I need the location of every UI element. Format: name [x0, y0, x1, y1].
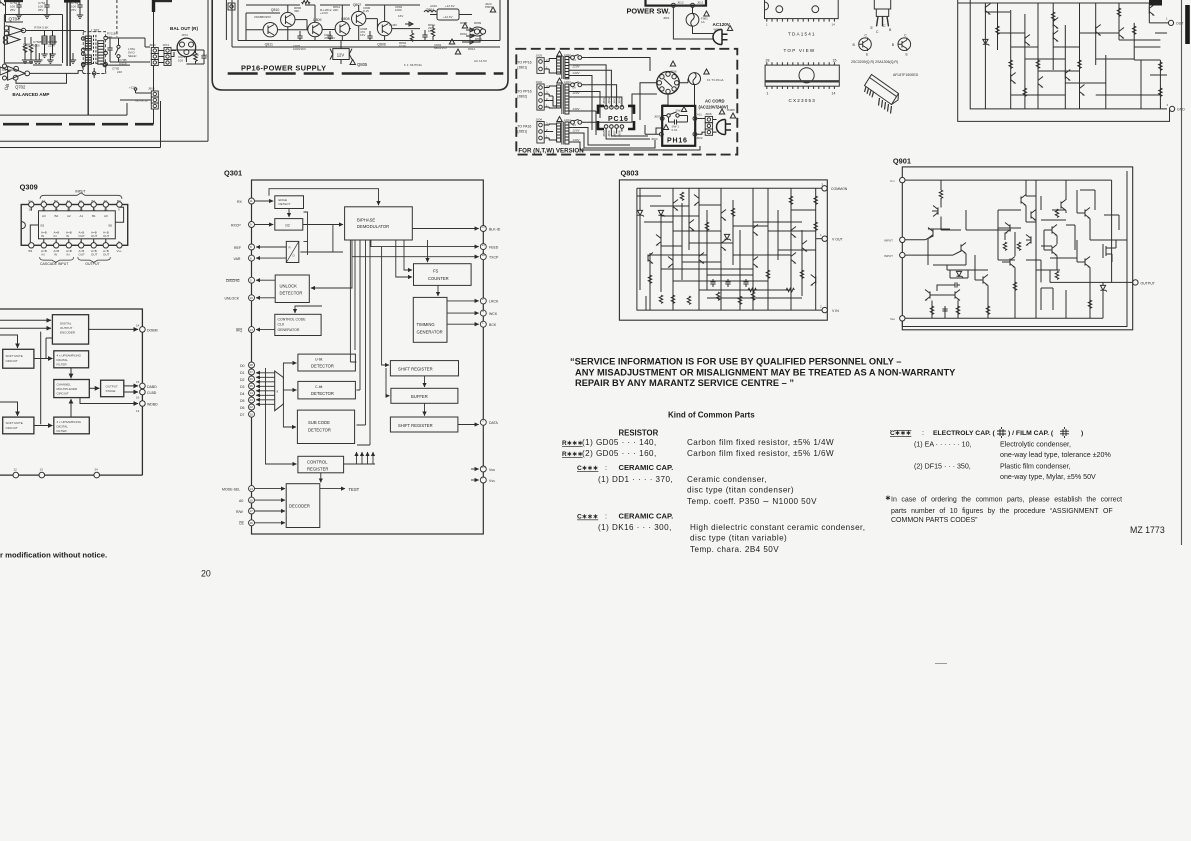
svg-text:0V: 0V — [573, 58, 577, 62]
svg-text:IN: IN — [67, 252, 70, 256]
wire filter2 up to mux — [70, 399, 72, 417]
mux trapezoid — [275, 371, 284, 411]
svg-text:OUTPUT: OUTPUT — [106, 385, 119, 389]
connector J904 column — [151, 48, 158, 66]
svg-text:16: 16 — [29, 207, 33, 211]
page edge vertical line — [1181, 0, 1183, 545]
pin GND — [1170, 106, 1175, 111]
svg-text:B2: B2 — [55, 214, 59, 218]
svg-text:20: 20 — [201, 569, 211, 579]
svg-text:INPUT: INPUT — [884, 254, 893, 258]
svg-text:DATA: DATA — [489, 421, 498, 425]
svg-text:CERAMIC CAP.: CERAMIC CAP. — [619, 512, 674, 521]
svg-text:Q810: Q810 — [271, 8, 280, 12]
PP16 outer rounded border — [212, 0, 508, 90]
bottom rail Vee — [905, 230, 1103, 318]
wire into control code clk — [295, 306, 322, 313]
PC16 pin circles top — [604, 106, 608, 110]
svg-text:RXCP: RXCP — [231, 223, 241, 227]
transistor mid lower — [1010, 257, 1015, 268]
svg-text:1/2: 1/2 — [285, 224, 290, 228]
wire encoder to DOBM — [89, 328, 138, 330]
svg-text:Q809: Q809 — [313, 18, 322, 22]
wire demod to shift register — [382, 247, 389, 365]
Q901 outer box — [902, 167, 1132, 330]
wire CE to decoder — [255, 522, 286, 524]
svg-text:AFL87F1500ED: AFL87F1500ED — [893, 73, 919, 77]
svg-text:22: 22 — [250, 405, 254, 409]
top bus wire — [0, 309, 142, 475]
svg-text:C971: C971 — [202, 54, 210, 58]
transformer L004 core — [562, 122, 564, 145]
svg-text:Q901: Q901 — [893, 157, 911, 166]
svg-text:TO PA16: TO PA16 — [517, 125, 531, 129]
transistor mirror bottom-left 1 — [925, 290, 930, 301]
svg-text:SOFT MUTE: SOFT MUTE — [6, 354, 23, 358]
svg-text:11: 11 — [250, 199, 253, 203]
right pin circles — [480, 226, 486, 232]
svg-text:240V: 240V — [572, 71, 581, 75]
svg-text:C∗∗∗: C∗∗∗ — [890, 430, 912, 437]
labels top-left — [2, 1, 209, 103]
wire filter1 to channel mux — [70, 368, 72, 378]
wire top rails — [4, 0, 62, 63]
svg-text:REF: REF — [234, 246, 241, 250]
box C-bit DETECTOR — [298, 381, 356, 399]
svg-text:56K: 56K — [23, 46, 28, 50]
PP16 inner border left — [225, 0, 227, 40]
svg-text:J906: J906 — [148, 87, 155, 91]
wire biphase to BLK-ID — [412, 228, 478, 230]
svg-text:VDD: VDD — [489, 468, 495, 472]
diode pair box — [956, 271, 963, 277]
svg-text:J803: J803 — [612, 97, 616, 104]
wire RXCP to divider — [255, 224, 274, 226]
transistor Q809 — [308, 22, 322, 36]
wires mid connections — [961, 196, 1066, 270]
transistor input pair left — [928, 228, 933, 239]
svg-text:B0: B0 — [117, 199, 121, 203]
box DIGITAL OUTPUT ENCODER — [52, 315, 88, 344]
box SHIFT REGISTER 2 — [390, 417, 458, 432]
svg-text:A0: A0 — [104, 214, 108, 218]
svg-text:In case of ordering the common: In case of ordering the common parts, pl… — [891, 497, 1122, 504]
transistor Q808 — [335, 21, 349, 35]
transformer L003 primary — [557, 85, 561, 108]
svg-text:CX23053: CX23053 — [789, 98, 817, 103]
resistor output — [1088, 300, 1091, 308]
wire timing to BCK — [447, 323, 479, 325]
svg-text:TO PP16: TO PP16 — [517, 90, 531, 94]
svg-text:12: 12 — [482, 225, 486, 229]
capacitor C753B block — [50, 36, 55, 44]
wire top loop into biphase — [269, 189, 379, 206]
internal vertical rails — [650, 188, 816, 310]
svg-text:PP16-POWER SUPPLY: PP16-POWER SUPPLY — [241, 64, 326, 73]
svg-text:540: 540 — [107, 35, 112, 39]
wire fuse to plug — [693, 26, 714, 33]
svg-text:DECODER: DECODER — [289, 504, 310, 509]
transistor pinout 2SC3209 — [859, 38, 872, 51]
transformer L003 secondary — [565, 84, 569, 114]
wire mute — [120, 66, 154, 124]
wire mux to C-bit detector — [283, 389, 296, 391]
warning triangle L003 — [557, 78, 562, 83]
CASCADE INPUT brace — [40, 257, 74, 262]
PC16 bracket frame — [598, 106, 634, 129]
wire FS counter to timing generator — [437, 285, 439, 296]
AC plug 120V — [713, 29, 728, 44]
IC CX23053 package — [765, 65, 839, 86]
box CONTROL REGISTER — [298, 456, 344, 473]
warning triangles — [462, 23, 467, 28]
svg-text:VSS: VSS — [489, 479, 495, 483]
svg-text:220V: 220V — [572, 64, 581, 68]
svg-text:BALANCED AMP: BALANCED AMP — [12, 92, 49, 97]
box CHANNEL MULTIPLEXER CIRCUIT — [54, 380, 90, 398]
svg-text:+12.6V: +12.6V — [445, 4, 455, 8]
wire to FEED — [371, 240, 479, 247]
svg-text:25V: 25V — [10, 8, 15, 12]
inner logic rect — [39, 211, 116, 239]
transformer L702 core — [94, 35, 96, 65]
svg-text:DETECT: DETECT — [279, 202, 291, 206]
svg-text:215K: 215K — [48, 43, 55, 47]
svg-text:RESISTOR: RESISTOR — [619, 429, 659, 438]
pin Vee — [900, 316, 905, 321]
svg-text:12V: 12V — [337, 53, 345, 58]
svg-text:DEMODULATOR: DEMODULATOR — [357, 224, 389, 229]
svg-text:+12V: +12V — [129, 86, 136, 90]
box SOFT MUTE CIRCUIT 2 — [3, 417, 34, 434]
svg-text:SHIFT REGISTER: SHIFT REGISTER — [398, 423, 433, 428]
svg-text:C∗∗∗: C∗∗∗ — [577, 465, 599, 472]
svg-text:15: 15 — [833, 59, 837, 63]
box divider 1/2 — [275, 219, 303, 231]
top rail Vcc — [905, 180, 1112, 240]
svg-text:14: 14 — [136, 324, 140, 328]
transistor current source top-left — [933, 206, 938, 217]
svg-text:DABD: DABD — [147, 385, 157, 389]
wire biphase to R/D — [300, 225, 343, 253]
svg-text:J002: J002 — [536, 80, 543, 84]
svg-text:REGISTER: REGISTER — [307, 467, 328, 472]
warning triangle Q805 — [350, 60, 355, 65]
svg-text:A2: A2 — [67, 199, 71, 203]
svg-text:TDA1541: TDA1541 — [788, 32, 816, 37]
svg-text:LRCK: LRCK — [489, 300, 499, 304]
svg-text:one-way lead type, tolerance: one-way lead type, tolerance ±20% — [1000, 451, 1111, 459]
wire D pins to mux — [256, 372, 275, 374]
pin circles bottom — [29, 243, 34, 248]
svg-text:0.15: 0.15 — [363, 9, 369, 13]
diode D804 — [405, 22, 420, 29]
long vertical wires — [67, 0, 70, 66]
svg-text:U-bit: U-bit — [315, 358, 322, 362]
driver transistor right — [1061, 200, 1066, 211]
dashed border box — [516, 49, 737, 155]
svg-text:BLK-ID: BLK-ID — [489, 227, 501, 231]
svg-text:STAGE: STAGE — [106, 389, 116, 393]
svg-text:R∗∗∗: R∗∗∗ — [562, 440, 583, 447]
svg-text:CN 10009: CN 10009 — [2, 68, 16, 72]
wire mux to output stage — [89, 387, 99, 389]
svg-text:Q704: Q704 — [9, 17, 21, 22]
svg-text:1000: 1000 — [395, 8, 402, 12]
svg-text:MODE-SEL: MODE-SEL — [222, 487, 240, 491]
svg-text:Q702: Q702 — [15, 85, 26, 90]
long vertical wires demod to detectors — [350, 240, 370, 445]
input pair wires — [905, 236, 961, 255]
connector J004 — [537, 122, 549, 144]
svg-text:P803: P803 — [485, 5, 492, 9]
voltage selector J006 — [657, 72, 680, 95]
svg-text:CASCADE INPUT: CASCADE INPUT — [40, 262, 69, 266]
diode D810 — [466, 28, 474, 32]
capacitor C754 — [16, 0, 22, 18]
svg-text:R∗∗∗: R∗∗∗ — [562, 451, 583, 458]
svg-text:“SERVICE INFORMATION IS FOR US: “SERVICE INFORMATION IS FOR USE BY QUALI… — [570, 357, 901, 367]
svg-text:D3: D3 — [240, 385, 245, 389]
svg-text:(1) GD05 · · · 140,: (1) GD05 · · · 140, — [582, 438, 657, 447]
pin CLBD — [140, 389, 146, 395]
Q803 outer box — [619, 180, 827, 320]
svg-text:D7: D7 — [240, 413, 245, 417]
svg-text:UNLOCK: UNLOCK — [225, 297, 240, 301]
svg-text:IN: IN — [54, 234, 57, 238]
switch S-5V — [117, 45, 120, 48]
svg-text:A3: A3 — [42, 214, 46, 218]
wire Vss arrow — [471, 479, 479, 481]
svg-text::: : — [922, 429, 924, 437]
PH16 partial box top — [646, 0, 707, 6]
bus line 1 — [0, 103, 127, 115]
wire MODE-SEL to decoder — [255, 488, 286, 490]
svg-text:220V: 220V — [572, 91, 581, 95]
wire into unlock detector — [311, 257, 352, 288]
wire to buffer — [386, 368, 390, 396]
svg-text:FOR (N,T,W) VERSION: FOR (N,T,W) VERSION — [518, 148, 584, 155]
capacitor C713 — [107, 45, 112, 53]
svg-text:21: 21 — [482, 465, 486, 469]
svg-text:DETECTOR: DETECTOR — [311, 391, 334, 396]
pin circles PH16 — [660, 117, 664, 121]
Q301 outer box — [252, 180, 484, 534]
transistor Q811 — [263, 23, 277, 37]
svg-text:INPUT: INPUT — [884, 239, 893, 243]
connector J005 column — [705, 116, 712, 135]
svg-text:B1: B1 — [92, 214, 96, 218]
svg-text:(J802): (J802) — [517, 95, 527, 99]
connector J023 plug circles — [474, 29, 479, 34]
feedback wire Q702 — [16, 73, 67, 83]
box EDGE DETECT — [275, 196, 304, 209]
svg-text:J003: J003 — [536, 54, 543, 58]
svg-text::: : — [605, 464, 607, 472]
transformer L003 core — [562, 84, 564, 115]
fuse F002 — [689, 73, 701, 85]
svg-text:14: 14 — [250, 487, 254, 491]
transistor input pair right — [961, 243, 966, 254]
svg-text:CERAMIC CAP.: CERAMIC CAP. — [619, 463, 674, 472]
svg-text:25V: 25V — [71, 8, 76, 12]
svg-text:A1: A1 — [79, 199, 83, 203]
transformer L702 primary windings — [85, 36, 91, 50]
fuse link L002 — [571, 56, 575, 60]
svg-text:Q806: Q806 — [377, 42, 386, 46]
box OUTPUT STAGE — [101, 380, 124, 397]
wire divider to biphase — [303, 224, 343, 226]
zener output — [1100, 285, 1107, 291]
top component row wires — [246, 5, 420, 22]
svg-text:FILTER: FILTER — [57, 429, 68, 433]
svg-text:4 x UPSAMPLING: 4 x UPSAMPLING — [57, 420, 82, 424]
wire R/D to VAR — [256, 257, 286, 259]
switch SW-1 — [667, 114, 670, 117]
svg-text:CLBD: CLBD — [147, 391, 157, 395]
svg-text:Carbon film fixed resistor, ±: Carbon film fixed resistor, ±5% 1/6W — [687, 449, 834, 458]
fuse link L003 — [571, 83, 575, 87]
svg-text:6800/35V: 6800/35V — [434, 46, 447, 50]
svg-text:1000/16V: 1000/16V — [293, 47, 306, 51]
box FS COUNTER — [414, 264, 472, 286]
svg-text:(1) DD1 · · · · 370,: (1) DD1 · · · · 370, — [598, 475, 673, 484]
svg-text:OUT: OUT — [91, 252, 98, 256]
regulator Q804 box — [437, 9, 459, 20]
svg-text:J005: J005 — [705, 112, 712, 116]
wire RX to edge detect — [255, 200, 274, 202]
svg-text:TEST: TEST — [349, 487, 360, 492]
svg-text:J972: J972 — [181, 33, 188, 37]
svg-text:(1) DK16 · · · 300,: (1) DK16 · · · 300, — [598, 523, 672, 532]
pin circles top — [29, 202, 34, 207]
svg-text:R808: R808 — [460, 21, 468, 25]
svg-text:OUTPUT: OUTPUT — [1141, 281, 1156, 285]
svg-text:2SD880/35V: 2SD880/35V — [254, 15, 271, 19]
module pins left — [865, 87, 874, 98]
svg-text:SUB CODE: SUB CODE — [308, 420, 330, 425]
svg-text:14: 14 — [832, 92, 836, 96]
svg-text:101K: 101K — [399, 44, 406, 48]
svg-text:25: 25 — [250, 384, 254, 388]
svg-text:39K: 39K — [294, 9, 299, 13]
svg-text:A1: A1 — [80, 214, 84, 218]
wire to DABD — [124, 385, 138, 387]
wire unlock det to UNLOCK — [256, 297, 275, 299]
wire SM2 to filter2 — [34, 425, 53, 427]
fuse link L004 — [571, 120, 575, 124]
capacitors Q803 — [710, 279, 715, 287]
transformer L002 primary — [557, 57, 561, 74]
wire to fuse — [677, 5, 702, 13]
svg-text:AC CORD: AC CORD — [705, 99, 725, 104]
svg-text:D1: D1 — [240, 371, 245, 375]
wire A0 to decoder — [255, 499, 286, 501]
svg-text:IN: IN — [41, 234, 44, 238]
module pins right — [879, 98, 892, 114]
svg-text:J-01: J-01 — [696, 113, 702, 117]
electrolytic capacitor C815 — [299, 31, 301, 34]
inner box bottom with grounds — [33, 64, 62, 66]
svg-text:20: 20 — [250, 412, 254, 416]
svg-text:D0: D0 — [240, 364, 245, 368]
warning triangle fuse — [704, 11, 709, 16]
svg-text:DETECTOR: DETECTOR — [311, 364, 334, 369]
svg-text:18: 18 — [482, 253, 486, 257]
diode D812 — [462, 36, 480, 44]
svg-text:R809: R809 — [474, 21, 482, 25]
svg-text:4 x UPSAMPLING: 4 x UPSAMPLING — [57, 354, 82, 358]
svg-text:16V: 16V — [428, 29, 433, 33]
svg-text:B3: B3 — [29, 249, 33, 253]
svg-text:L002: L002 — [564, 53, 571, 57]
svg-text:13: 13 — [136, 409, 140, 413]
transformer L004 secondary — [565, 122, 569, 144]
resistor R804 — [411, 30, 413, 33]
svg-text:240V: 240V — [572, 138, 581, 142]
wire to CLBD — [124, 391, 138, 393]
svg-text:J007: J007 — [654, 115, 661, 119]
svg-text:D4: D4 — [240, 392, 245, 396]
svg-text:DISCHG: DISCHG — [226, 279, 240, 283]
svg-text:Ceramic condenser,: Ceramic condenser, — [687, 475, 767, 484]
svg-text:Q301: Q301 — [224, 169, 242, 178]
svg-text:J804: J804 — [618, 97, 622, 104]
resistors Q803 — [680, 192, 683, 200]
svg-text:24: 24 — [250, 328, 254, 332]
output node wire — [1050, 270, 1133, 300]
svg-text:14: 14 — [832, 23, 836, 27]
wires PH16 to connector — [697, 119, 717, 135]
svg-text:D812: D812 — [468, 47, 476, 51]
resistor R811 — [432, 25, 434, 28]
svg-text:220V: 220V — [572, 129, 581, 133]
svg-text:28: 28 — [766, 59, 770, 63]
svg-text:27: 27 — [250, 370, 254, 374]
zener diode left 2 — [658, 210, 665, 216]
svg-text:IRQ: IRQ — [236, 328, 243, 332]
inner bottom loop — [902, 171, 1127, 327]
svg-text:R970: R970 — [191, 53, 199, 57]
wire PH16 left — [645, 125, 662, 134]
bus line 3 — [0, 0, 208, 141]
svg-text:REPAIR BY ANY MARANTZ SERVICE: REPAIR BY ANY MARANTZ SERVICE CENTRE – ” — [575, 378, 794, 388]
AC plug 220V — [716, 119, 731, 134]
resistor top-left — [939, 190, 942, 198]
svg-text:J807: J807 — [612, 130, 616, 137]
svg-text:INPUT: INPUT — [75, 190, 86, 194]
wire SR1 to buffer — [424, 376, 426, 387]
svg-text:A0: A0 — [104, 199, 108, 203]
svg-text:(AC220V/240V): (AC220V/240V) — [699, 105, 729, 110]
wire control register input — [266, 368, 297, 464]
svg-text:28: 28 — [250, 363, 254, 367]
svg-text:ENCODER: ENCODER — [60, 331, 76, 335]
capacitor C971 — [203, 50, 205, 54]
svg-text:SHIFT REGISTER: SHIFT REGISTER — [398, 367, 433, 372]
svg-text:15: 15 — [250, 498, 254, 502]
svg-text:25V: 25V — [38, 8, 43, 12]
diode D811 — [466, 34, 474, 38]
svg-text:(J851): (J851) — [517, 130, 527, 134]
svg-text:OUT: OUT — [103, 234, 110, 238]
svg-text:OUT: OUT — [79, 252, 86, 256]
svg-text:16V: 16V — [360, 33, 365, 37]
output mosfet — [1103, 240, 1116, 262]
svg-text:disc type (titan variable): disc type (titan variable) — [690, 534, 787, 543]
wire opamp out to transformer — [26, 30, 84, 32]
svg-text:SOFT MUTE: SOFT MUTE — [6, 421, 23, 425]
